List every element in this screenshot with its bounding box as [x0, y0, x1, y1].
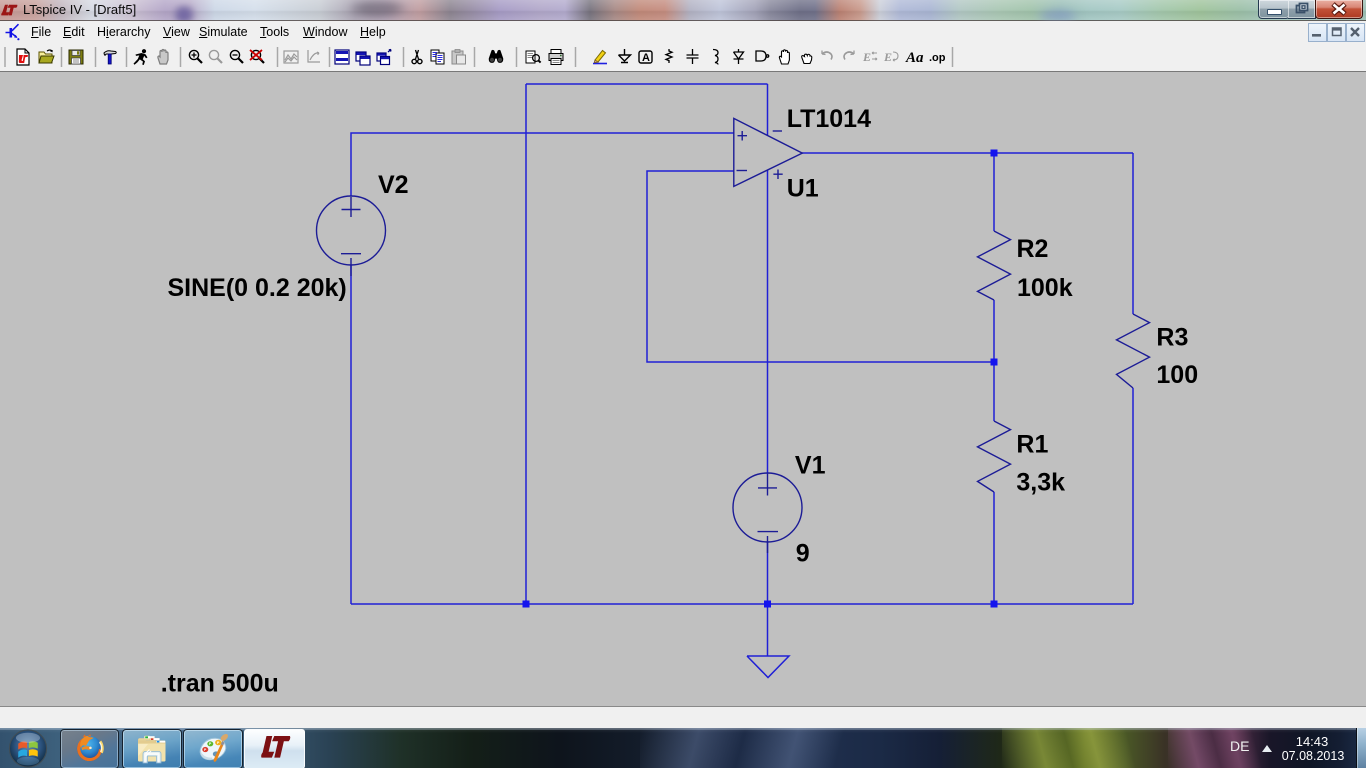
icon: tile horizontally [335, 50, 349, 64]
svg-text:9: 9 [796, 539, 810, 567]
wire mid node down to R1 top [993, 362, 995, 421]
icon: cut [412, 50, 422, 64]
resistor R1 body [978, 421, 1011, 492]
wire top rail V- to left drop [526, 83, 768, 85]
svg-text:3,3k: 3,3k [1016, 468, 1065, 496]
wire bottom ground rail [351, 603, 1133, 605]
svg-text:R3: R3 [1156, 323, 1188, 351]
wire op-amp output to R3 top [802, 152, 1133, 154]
fox body crescent [77, 736, 102, 761]
wire V2 minus down to ground rail [350, 265, 352, 604]
wire op-amp V+ pin to V1 plus [767, 170, 769, 474]
svg-text:E: E [883, 50, 892, 64]
purple orb smear on glass [170, 5, 198, 23]
op-amp input - marker [737, 170, 748, 172]
icon: print preview [526, 51, 541, 63]
voltage source V1 circle [733, 473, 802, 542]
icon: undo (disabled) [822, 51, 832, 60]
icon: move (hand) [779, 50, 789, 64]
tray: clock [1282, 734, 1342, 749]
svg-text:.tran 500u: .tran 500u [161, 670, 279, 698]
svg-text:E: E [862, 50, 871, 64]
svg-text:U1: U1 [787, 175, 819, 203]
tray: DE language [1230, 738, 1249, 754]
icon: mirror (disabled) [862, 50, 877, 64]
wire R2 bottom to mid node [993, 300, 995, 362]
icon: tile vertically [356, 52, 370, 65]
icon: new schematic [17, 49, 29, 65]
icon: zoom full extents [250, 50, 264, 63]
show desktop [1356, 728, 1366, 768]
icon: spice directive [929, 52, 946, 64]
op-amp input + marker [738, 131, 748, 141]
app icon: LT logo small [1, 4, 18, 17]
svg-text:A: A [642, 52, 650, 64]
icon: open [39, 50, 54, 63]
icon: diode [734, 49, 744, 64]
voltage source V2 circle [317, 196, 386, 265]
resistor R2 body [978, 231, 1011, 300]
wire V2 plus to op-amp +in [351, 133, 734, 196]
explorer button [122, 729, 182, 768]
icon: wire (pencil) [593, 51, 607, 64]
wire R3 leads [1132, 153, 1134, 604]
svg-text:V1: V1 [795, 451, 826, 479]
svg-text:V2: V2 [378, 171, 409, 199]
icon: capacitor [687, 49, 699, 64]
icon: zoom back (disabled) [209, 50, 222, 63]
icon: run (man) [134, 49, 148, 65]
icon: copy [431, 50, 444, 64]
junction feedback node [991, 359, 998, 366]
icon: halt (hand, disabled) [158, 50, 168, 65]
wire left vertical from top rail to ground rail [525, 84, 527, 604]
icon: rotate (disabled) [883, 50, 898, 64]
icon: zoom out [230, 50, 243, 63]
icon: ground symbol [619, 49, 631, 63]
wire R1 bottom to ground rail [993, 492, 995, 604]
junction ground rail at V1 [764, 601, 771, 608]
resistor R3 body [1117, 314, 1150, 388]
svg-text:R2: R2 [1017, 235, 1049, 263]
op-amp U1 triangle [734, 118, 803, 186]
junction ground rail at left vertical [523, 601, 530, 608]
svg-text:.op: .op [929, 52, 946, 64]
icon: redo (disabled) [844, 51, 854, 60]
separators [5, 47, 953, 67]
MDI child buttons [1308, 23, 1364, 41]
window buttons [1258, 0, 1363, 19]
icon: find (binoculars) [489, 50, 503, 63]
icon: inductor [713, 50, 718, 65]
icon: text [905, 50, 924, 66]
op-amp V- pin marker [773, 130, 782, 132]
icon: save [69, 50, 83, 64]
icon: zoom in [189, 50, 202, 63]
start orb [6, 729, 50, 768]
svg-text:R1: R1 [1016, 431, 1048, 459]
svg-text:SINE(0 0.2 20k): SINE(0 0.2 20k) [168, 274, 347, 302]
ltspice button (active) [244, 729, 305, 768]
icon: print [549, 50, 563, 65]
op-amp V+ pin marker [773, 170, 782, 180]
icon: cascade [377, 50, 391, 65]
icon: control panel (hammer) [104, 51, 116, 64]
junction ground rail at R1 [991, 601, 998, 608]
wire feedback: node between R2/R1 to op-amp -in [647, 171, 994, 362]
firefox button [60, 729, 119, 768]
svg-text:Aa: Aa [905, 50, 924, 66]
icon: autorange (disabled) [284, 51, 298, 63]
icon: paste (disabled) [452, 50, 466, 65]
wire op-amp V- pin drop [767, 84, 769, 135]
wire output node down to R2 top [993, 153, 995, 231]
ground symbol [747, 604, 789, 678]
tray: show hidden triangle [1261, 745, 1273, 753]
icon: pan (disabled) [308, 50, 320, 62]
junction output node [991, 150, 998, 157]
icon: resistor [666, 49, 672, 63]
svg-text:100k: 100k [1017, 274, 1073, 302]
wire V1 minus to ground rail [767, 541, 769, 604]
svg-text:100: 100 [1156, 361, 1198, 389]
icon: component (gate) [756, 51, 769, 61]
icon: net label [639, 51, 652, 64]
icon: drag [802, 54, 812, 63]
paint button [183, 729, 243, 768]
svg-text:LT1014: LT1014 [787, 105, 871, 133]
